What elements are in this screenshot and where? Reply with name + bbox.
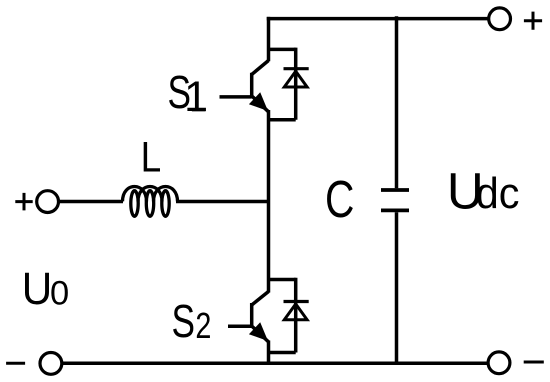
svg-text:U: U [22,263,53,314]
wire phase-leg midpoint [267,110,271,293]
svg-text:S: S [172,295,196,347]
capacitor C [381,190,409,210]
IGBT S2 [249,292,269,342]
terminal output - [488,352,510,374]
wire top rail [267,17,488,21]
label - (output) [524,361,544,364]
wire inductor to midpoint node [176,200,269,204]
terminal input - [40,353,62,375]
inductor L [123,186,178,216]
label + (output) [524,12,542,30]
svg-text:C: C [325,171,354,229]
wire D2 anode to S2 emitter [269,351,296,355]
label - (input) [6,362,25,365]
wire bottom rail [62,361,487,365]
terminal output + [489,8,511,30]
label S1 [168,66,209,121]
diode D1 [284,48,309,120]
capacitor C lead bottom (wire) [395,212,399,363]
wire input [59,200,124,204]
svg-text:0: 0 [50,274,69,312]
wire S1 collector stub [267,17,271,61]
capacitor C lead top (wire) [395,16,399,188]
svg-text:dc: dc [476,170,520,218]
label U0 [22,263,69,314]
svg-text:L: L [141,134,162,182]
IGBT S1 [249,61,269,112]
wire S1 collector tap to diode D1 [269,48,296,52]
svg-text:2: 2 [195,305,211,346]
wire S2 gate lead [228,325,252,329]
diode D2 [284,278,309,353]
wire S1 gate lead [220,95,252,99]
label S2 [172,295,212,347]
svg-text:1: 1 [184,73,208,121]
wire D1 anode to S1 emitter [269,118,296,122]
wire S2 emitter to bottom rail [267,341,271,365]
terminal input + [37,191,59,213]
label + (input) [15,193,32,211]
wire S2 collector tap to diode D2 [269,278,296,282]
label Udc [447,162,520,219]
